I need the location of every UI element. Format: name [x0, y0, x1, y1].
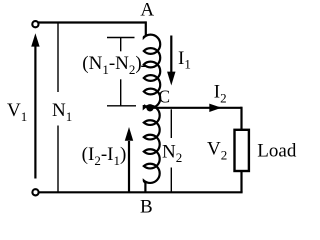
svg-text:(I2-I1): (I2-I1) [82, 144, 127, 168]
wire: load branch down from C wire to load top [240, 107, 242, 130]
wire: bottom wire from input terminal to load branch [39, 191, 243, 193]
arrow V1 (voltage arrow between terminals, pointing up) [31, 33, 39, 178]
svg-text:A: A [140, 0, 154, 21]
wire: C wire from tap to load branch [150, 107, 242, 109]
arrow I1 (current into tap, pointing down) [167, 36, 175, 86]
wire: top wire from input terminal to node A corner [38, 21, 146, 23]
terminal: bottom-left input terminal [32, 189, 38, 195]
dimension bracket (N1-N2) upper winding [107, 38, 147, 106]
svg-text:C: C [158, 86, 170, 106]
svg-text:Load: Load [257, 141, 297, 162]
terminal: top-left input terminal [32, 21, 38, 27]
load resistor rectangle [235, 130, 249, 171]
svg-text:B: B [140, 196, 153, 217]
inductor winding lower section (N2), tap C to node B [144, 105, 160, 192]
arrow I2 (output current on C wire, pointing right) [209, 104, 221, 112]
wire: load bottom to bottom wire [240, 171, 242, 192]
junction dot at tap C [146, 104, 153, 111]
dimension line N1 (full winding span) [57, 23, 59, 193]
dimension line N2 (lower winding span) [170, 109, 172, 192]
arrow (I2-I1) (lower winding current, pointing up) [125, 127, 133, 192]
inductor winding upper section (N1-N2), node A to tap C [144, 21, 160, 107]
